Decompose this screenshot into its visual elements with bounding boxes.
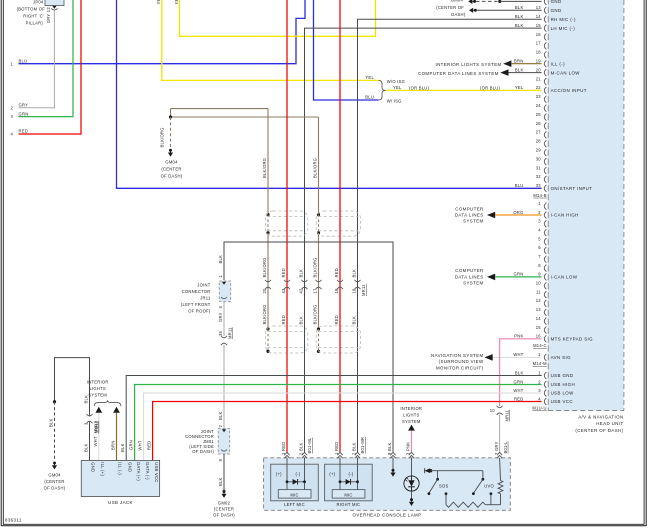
svg-text:BLK: BLK: [298, 269, 303, 278]
svg-text:GND: GND: [551, 0, 562, 4]
wire BLK RH MIC(-) pin 14 to right mic: [358, 19, 542, 452]
svg-text:RED: RED: [334, 315, 339, 325]
svg-text:1: 1: [538, 370, 541, 375]
svg-text:DATA LINES: DATA LINES: [455, 274, 484, 279]
svg-text:BLK: BLK: [218, 477, 223, 486]
svg-text:COMPUTER: COMPUTER: [455, 206, 483, 211]
svg-text:(-): (-): [296, 471, 301, 476]
system label INTERIOR LIGHTS SYSTEM (usb jack): [87, 380, 121, 407]
svg-text:(CENTER: (CENTER: [161, 167, 181, 172]
svg-text:20: 20: [536, 67, 542, 72]
svg-text:MR11: MR11: [504, 409, 509, 421]
svg-text:M14-B: M14-B: [533, 193, 546, 198]
svg-text:31: 31: [536, 165, 542, 170]
svg-text:DATA (-): DATA (-): [145, 462, 150, 480]
resistor horizontal (console): [445, 492, 501, 507]
svg-text:1 RED: 1 RED: [334, 442, 339, 455]
svg-text:M14-C: M14-C: [533, 343, 547, 348]
svg-text:GM04: GM04: [165, 160, 178, 165]
svg-text:MONITOR CIRCUIT): MONITOR CIRCUIT): [436, 366, 484, 371]
svg-text:43: 43: [281, 288, 286, 294]
svg-text:29: 29: [536, 148, 542, 153]
svg-text:GRN: GRN: [128, 440, 133, 450]
connector M14-B pin 12 (GND): [544, 0, 561, 5]
wire YEL (OR BLU) merged to pin 22: [386, 85, 542, 90]
svg-text:W/ ISG: W/ ISG: [387, 98, 402, 103]
wire RED USB VCC: [146, 402, 541, 461]
svg-text:DATA LINES: DATA LINES: [455, 212, 484, 217]
svg-text:MTS KEYPAD SIG: MTS KEYPAD SIG: [551, 337, 594, 342]
inline connector MM12 pin 3 on BLK: [87, 414, 99, 433]
svg-text:M14-M: M14-M: [533, 361, 547, 366]
svg-text:2 BLK: 2 BLK: [352, 442, 357, 455]
svg-text:RED: RED: [281, 315, 286, 325]
left mic internal wiring and diode: [286, 458, 306, 490]
svg-text:GM02: GM02: [218, 501, 231, 506]
wire BLK JM01 pin9 to ground GM02: [218, 454, 224, 491]
svg-text:RIGHT MIC: RIGHT MIC: [337, 502, 361, 507]
svg-text:27: 27: [536, 130, 542, 135]
svg-text:YEL: YEL: [365, 75, 374, 80]
svg-text:18: 18: [352, 288, 357, 294]
svg-text:9 BLK: 9 BLK: [387, 442, 392, 455]
shield box lower right: [316, 326, 360, 353]
wire BLK pin 12 GND (dashed splice): [476, 0, 541, 3]
svg-text:(CENTER: (CENTER: [214, 507, 234, 512]
svg-text:2: 2: [538, 379, 541, 384]
wire YEL inverted-U from top: [174, 0, 376, 36]
wire BLK usb jack GND to GM04 ground: [48, 358, 89, 461]
wire PNK MTS keypad sig from pin 16: [500, 339, 542, 406]
svg-text:BLK/ORG: BLK/ORG: [312, 304, 317, 324]
svg-text:AVN SIG: AVN SIG: [551, 355, 571, 360]
wire GRN I-CAN LOW: [495, 276, 541, 278]
component OVERHEAD CONSOLE LAMP: [264, 458, 511, 518]
svg-text:BRN: BRN: [110, 441, 115, 451]
connector M14-M pin 1 (AVN SIG): [513, 352, 571, 361]
svg-text:(+): (+): [329, 471, 335, 476]
svg-text:RED: RED: [281, 268, 286, 278]
svg-text:I-CAN HIGH: I-CAN HIGH: [551, 213, 579, 218]
wire ORG I-CAN HIGH: [495, 214, 541, 216]
svg-text:1 RED: 1 RED: [281, 442, 286, 455]
svg-text:GRY: GRY: [218, 312, 223, 322]
svg-text:USB VCC: USB VCC: [551, 399, 573, 404]
connector M14-C pin 2 (I-CAN HIGH): [513, 210, 578, 219]
svg-text:SYSTEM: SYSTEM: [402, 419, 421, 424]
svg-text:YEL: YEL: [156, 0, 161, 5]
svg-text:USB HIGH: USB HIGH: [551, 382, 575, 387]
svg-text:33: 33: [536, 183, 542, 188]
joint connector JM01 (left side of dash): [185, 429, 230, 455]
svg-text:16: 16: [536, 32, 542, 37]
svg-text:M-CAN LOW: M-CAN LOW: [551, 70, 581, 75]
wire GRY/BLK down to JM01 pin 2: [218, 345, 224, 429]
svg-text:SYSTEM: SYSTEM: [463, 219, 483, 224]
svg-text:INTERIOR: INTERIOR: [87, 380, 109, 385]
wire GRY pin2 to JP04: [19, 10, 55, 108]
svg-text:JR11: JR11: [200, 295, 211, 300]
svg-text:26: 26: [536, 121, 542, 126]
svg-text:YEL: YEL: [174, 0, 179, 5]
svg-text:9: 9: [538, 272, 541, 277]
svg-text:OF DASH): OF DASH): [192, 449, 214, 454]
svg-text:17: 17: [536, 41, 542, 46]
svg-text:SYSTEM: SYSTEM: [463, 280, 483, 285]
wire RED right mic (+) from top: [339, 0, 341, 453]
wire BLK/ORG shield drain 1 horizontal: [171, 108, 269, 110]
svg-text:BLU: BLU: [365, 95, 374, 100]
svg-text:I-CAN LOW: I-CAN LOW: [551, 275, 578, 280]
svg-text:(CENTER OF: (CENTER OF: [436, 5, 464, 10]
connector M1U-U pin 2 (USB HIGH): [514, 379, 575, 388]
ground GM04 (center of dash) middle: [161, 149, 183, 179]
svg-text:INTERIOR: INTERIOR: [400, 406, 422, 411]
svg-text:19: 19: [334, 288, 339, 294]
wire BLK USB GND: [120, 376, 542, 461]
svg-text:BLK/ORG: BLK/ORG: [160, 127, 165, 147]
svg-text:GRY: GRY: [19, 103, 29, 108]
wire GRN pin3 to top: [19, 0, 74, 117]
A/V & navigation head unit component box: [548, 0, 624, 433]
node left pin 3 GRN: [10, 111, 28, 119]
system arrow NAVIGATION SYSTEM (surround view monitor): [431, 353, 493, 371]
svg-text:15: 15: [536, 23, 542, 28]
svg-text:OF DASH): OF DASH): [213, 513, 235, 518]
wire YEL (w/o ISG) from top: [156, 0, 378, 80]
wire BLU (w/ ISG) from top: [314, 0, 379, 100]
svg-text:GRN: GRN: [514, 272, 524, 277]
svg-text:BLK/ORG: BLK/ORG: [262, 304, 267, 324]
svg-text:GM04: GM04: [451, 0, 464, 3]
connector M1U-U pin 3 (USB LOW): [513, 388, 574, 397]
svg-text:GND: GND: [551, 8, 562, 13]
svg-text:35: 35: [218, 330, 223, 336]
svg-text:10: 10: [490, 408, 496, 413]
shield box lower left: [266, 326, 308, 353]
svg-text:NAVIGATION SYSTEM: NAVIGATION SYSTEM: [431, 353, 484, 358]
svg-text:GRN: GRN: [514, 379, 524, 384]
svg-text:LIGHTS: LIGHTS: [89, 386, 105, 391]
svg-text:(-): (-): [349, 471, 354, 476]
left mic MIC element: [278, 490, 311, 499]
wire BLK pin 13 GND: [477, 9, 542, 11]
left mic pin labels: [281, 437, 312, 455]
svg-text:YEL: YEL: [515, 85, 524, 90]
svg-text:12: 12: [536, 298, 542, 303]
right mic internal wiring and diode: [339, 458, 359, 490]
brace merge YEL/BLU: [365, 75, 405, 103]
node left pin 2 GRY: [10, 103, 28, 111]
wire BLK ground link console pin9 to JR11 pin1: [218, 242, 393, 453]
component RIGHT MIC: [325, 464, 373, 507]
svg-text:MIC: MIC: [344, 493, 352, 498]
svg-text:(+): (+): [276, 471, 282, 476]
svg-text:BLK/ORG: BLK/ORG: [312, 158, 317, 178]
svg-text:ILL (-): ILL (-): [118, 462, 123, 475]
connector JP04 (bottom of right C pillar): [17, 0, 64, 26]
svg-text:20: 20: [262, 288, 267, 294]
wire WHT AVN SIG: [493, 356, 542, 358]
svg-text:COMPUTER DATA LINES SYSTEM: COMPUTER DATA LINES SYSTEM: [418, 71, 499, 76]
svg-text:RED: RED: [19, 129, 29, 134]
svg-text:7 GRY: 7 GRY: [494, 441, 499, 455]
connector M14-C pin 9 (I-CAN LOW): [514, 272, 578, 281]
wire BLK/ORG shield 2 vertical: [312, 117, 320, 353]
svg-text:19: 19: [536, 59, 542, 64]
svg-text:4: 4: [10, 132, 13, 137]
svg-text:BLK: BLK: [351, 269, 356, 278]
svg-text:15: 15: [536, 325, 542, 330]
svg-text:23: 23: [536, 94, 542, 99]
system arrow COMPUTER DATA LINES SYSTEM (I-CAN HIGH): [455, 206, 495, 223]
svg-text:ILL (+): ILL (+): [100, 462, 105, 476]
svg-text:(CENTER: (CENTER: [44, 479, 64, 484]
svg-text:2: 2: [538, 210, 541, 215]
svg-text:SYSTEM: SYSTEM: [88, 393, 107, 398]
svg-text:16: 16: [536, 334, 542, 339]
svg-text:(BOTTOM OF: (BOTTOM OF: [17, 7, 46, 12]
inline connector MR11 (6 wires): [262, 280, 366, 296]
svg-text:A/V & NAVIGATION: A/V & NAVIGATION: [578, 415, 623, 420]
svg-text:BLU: BLU: [19, 58, 28, 63]
svg-text:7: 7: [538, 254, 541, 259]
svg-text:3: 3: [10, 114, 13, 119]
svg-text:(OR BLU): (OR BLU): [409, 85, 430, 90]
svg-text:RIGHT 'C': RIGHT 'C': [23, 14, 44, 19]
wire GRY JR11 pin4 down through MR11 pin35: [218, 302, 224, 337]
switch UVO: [472, 471, 495, 495]
svg-text:1: 1: [538, 201, 541, 206]
connector M14-B pin 33 (ON/START INPUT): [515, 183, 593, 192]
svg-text:CONNECTOR: CONNECTOR: [182, 289, 211, 294]
ground GM04 (center of dash) top: [436, 0, 477, 17]
svg-text:(LEFT FRONT: (LEFT FRONT: [181, 302, 211, 307]
svg-text:BLK: BLK: [515, 23, 524, 28]
node left pin 1 BLU: [10, 58, 27, 66]
svg-text:RED: RED: [334, 268, 339, 278]
svg-text:4: 4: [218, 306, 223, 309]
svg-text:11: 11: [536, 289, 541, 294]
connector M14-B pin 20 (M-CAN LOW): [515, 67, 580, 76]
svg-text:SOS: SOS: [439, 484, 449, 489]
svg-text:(OR BLU): (OR BLU): [480, 85, 501, 90]
svg-text:10: 10: [536, 281, 542, 286]
wire GRY to console pin 7: [494, 415, 508, 455]
svg-text:BLK: BLK: [218, 411, 223, 420]
svg-text:W/O ISG: W/O ISG: [387, 79, 405, 84]
wire labels around MR11: [262, 257, 357, 324]
arrow up ILL(-): [113, 407, 120, 413]
svg-text:18: 18: [536, 50, 542, 55]
wire RED pin4 to top: [19, 0, 82, 134]
svg-text:BLK/ORG: BLK/ORG: [262, 257, 267, 277]
svg-text:13: 13: [536, 307, 542, 312]
node left pin 4 RED: [10, 129, 28, 137]
component USB JACK: [81, 461, 159, 505]
svg-text:BLK: BLK: [120, 443, 125, 452]
svg-text:2 BLK: 2 BLK: [299, 442, 304, 455]
resistor vertical (console, GRY pin 7): [498, 458, 503, 505]
svg-text:3: 3: [538, 388, 541, 393]
svg-text:COMPUTER: COMPUTER: [455, 268, 483, 273]
wire BLK/ORG shield 1 vertical: [262, 109, 270, 353]
svg-text:BLK: BLK: [48, 418, 53, 427]
connector M1U-U pin 1 (USB GND): [515, 370, 573, 379]
console pin entries: [284, 452, 502, 458]
svg-text:30: 30: [536, 156, 542, 161]
svg-text:BLU: BLU: [515, 183, 524, 188]
svg-text:GND: GND: [127, 462, 132, 472]
wire BLU ON/START input from top to pin 33: [117, 0, 542, 188]
svg-text:BLK/ORG: BLK/ORG: [312, 257, 317, 277]
svg-text:USB GND: USB GND: [551, 373, 574, 378]
svg-text:WHT: WHT: [513, 388, 523, 393]
svg-text:LIGHTS: LIGHTS: [403, 412, 419, 417]
svg-text:OF DASH): OF DASH): [161, 174, 183, 179]
svg-text:MR11: MR11: [361, 284, 366, 296]
svg-text:HEAD UNIT: HEAD UNIT: [596, 421, 623, 426]
svg-text:BLK: BLK: [83, 443, 88, 452]
svg-text:LH MIC (-): LH MIC (-): [551, 26, 576, 31]
svg-text:GRN: GRN: [19, 111, 29, 116]
svg-text:B01-L: B01-L: [503, 441, 508, 454]
shield (twisted pair) box upper left: [266, 211, 308, 236]
svg-text:BRN: BRN: [514, 59, 524, 64]
connector M14-B pin 22 (ACC/ON INPUT): [515, 85, 587, 94]
svg-text:BLK: BLK: [298, 316, 303, 325]
connector M14-B pin 19 (ILL (-)): [514, 59, 565, 68]
arrow up ILL(+): [95, 407, 102, 413]
svg-text:22: 22: [536, 85, 542, 90]
svg-text:ORG: ORG: [513, 210, 523, 215]
svg-text:(CENTER OF DASH): (CENTER OF DASH): [575, 428, 623, 433]
svg-text:PNK: PNK: [514, 334, 523, 339]
svg-text:BLK: BLK: [515, 370, 524, 375]
svg-text:1: 1: [538, 352, 541, 357]
wire BLK/ORG drain junction to ground: [160, 109, 173, 149]
svg-text:GRY 12: GRY 12: [46, 7, 51, 24]
component LEFT MIC: [271, 464, 319, 507]
wire BRN ILL(-): [110, 413, 116, 461]
svg-text:BLK: BLK: [515, 5, 524, 10]
system arrow COMPUTER DATA LINES SYSTEM (M-CAN LOW): [418, 69, 508, 76]
wire PNK console lamp pin 3: [406, 431, 412, 455]
svg-text:1: 1: [10, 61, 13, 66]
svg-text:RH MIC (-): RH MIC (-): [551, 17, 576, 22]
svg-text:GM04: GM04: [48, 473, 61, 478]
svg-text:M1U-U: M1U-U: [532, 406, 546, 411]
svg-text:836311: 836311: [5, 518, 22, 523]
connector M14-B pin 15 (LH MIC (-)): [515, 23, 575, 32]
wire BLK/ORG shield drain 2 horizontal: [171, 116, 319, 118]
connector M14-B pin 14 (RH MIC (-)): [515, 14, 576, 23]
system arrow INTERIOR LIGHTS SYSTEM (ILL-): [435, 60, 511, 67]
arrow up console lamp PNK: [408, 425, 415, 431]
svg-text:24: 24: [536, 103, 542, 108]
wire BRN ILL(-): [511, 63, 541, 65]
svg-text:3: 3: [538, 219, 541, 224]
svg-text:4: 4: [538, 228, 541, 233]
inline connector MR11 pin 10 on PNK/GRY: [490, 406, 510, 422]
joint connector JR11 (left front of roof): [181, 281, 231, 313]
right mic MIC element: [332, 490, 365, 499]
svg-text:JOINT: JOINT: [197, 282, 210, 287]
svg-text:GND: GND: [91, 462, 96, 472]
svg-text:OF DASH): OF DASH): [44, 486, 66, 491]
svg-text:MM12: MM12: [93, 421, 98, 434]
svg-text:2: 2: [10, 105, 13, 110]
svg-text:DATA (+): DATA (+): [136, 462, 141, 481]
svg-text:9: 9: [218, 459, 223, 462]
svg-text:PILLAR): PILLAR): [26, 21, 44, 26]
svg-text:6: 6: [538, 245, 541, 250]
inline connector MR11 pin 35: [221, 327, 233, 345]
svg-text:42: 42: [299, 288, 304, 294]
svg-text:BLK: BLK: [515, 67, 524, 72]
console internal ground (pin 9): [390, 458, 395, 477]
switch SOS: [428, 471, 449, 495]
svg-text:MR11: MR11: [228, 327, 233, 339]
svg-text:DASH): DASH): [451, 12, 466, 17]
svg-text:MIC: MIC: [290, 493, 298, 498]
LED lamp (console): [404, 458, 419, 506]
svg-text:4: 4: [538, 396, 541, 401]
wire BLK LH MIC(-) pin 15 to left mic: [305, 28, 542, 452]
svg-text:OVERHEAD CONSOLE LAMP: OVERHEAD CONSOLE LAMP: [353, 512, 422, 517]
svg-text:INTERIOR LIGHTS SYSTEM: INTERIOR LIGHTS SYSTEM: [435, 62, 501, 67]
svg-text:17: 17: [313, 288, 318, 294]
wire RED left mic (+) from top: [286, 0, 288, 453]
connector M14-B empty pins 16-18,21,23-32: [536, 32, 547, 183]
ground GM02 (center of dash): [213, 490, 235, 518]
svg-text:3 PNK: 3 PNK: [406, 442, 411, 455]
svg-text:32: 32: [536, 174, 542, 179]
console switch bus and page arrow: [425, 468, 483, 473]
svg-text:21: 21: [536, 76, 542, 81]
svg-text:RED: RED: [514, 396, 524, 401]
svg-text:ON/START INPUT: ON/START INPUT: [551, 186, 593, 191]
system arrow COMPUTER DATA LINES SYSTEM (I-CAN LOW): [455, 268, 495, 285]
svg-text:WHT: WHT: [513, 352, 523, 357]
right mic pin labels: [334, 437, 365, 455]
svg-text:B01-ML: B01-ML: [307, 437, 312, 453]
svg-text:5: 5: [538, 236, 541, 241]
svg-text:B01-MR: B01-MR: [360, 437, 365, 454]
svg-text:RED: RED: [146, 441, 151, 451]
svg-text:USB JACK: USB JACK: [108, 500, 133, 505]
svg-text:8: 8: [538, 263, 541, 268]
svg-text:BLK/ORG: BLK/ORG: [262, 158, 267, 178]
connector M14-C pin 16 (MTS KEYPAD SIG): [514, 334, 593, 343]
wire BLU pin1 to top (jog): [19, 0, 306, 64]
svg-text:14: 14: [536, 14, 542, 19]
svg-text:BLK: BLK: [351, 316, 356, 325]
svg-text:UVO: UVO: [484, 484, 494, 489]
wire BLK M-CAN LOW: [509, 72, 542, 74]
svg-text:WHT: WHT: [137, 440, 142, 450]
svg-text:USB VCC: USB VCC: [154, 462, 159, 482]
ground GM04 (center of dash) bottom left: [44, 462, 66, 491]
svg-text:USB LOW: USB LOW: [551, 391, 575, 396]
connector M14-B pin 13 (GND): [515, 5, 562, 14]
svg-text:1: 1: [218, 275, 223, 278]
svg-text:(SURROUND VIEW: (SURROUND VIEW: [439, 359, 484, 364]
svg-text:BLK: BLK: [218, 255, 223, 264]
svg-text:YEL: YEL: [393, 85, 402, 90]
svg-text:25: 25: [536, 112, 542, 117]
svg-text:ACC/ON INPUT: ACC/ON INPUT: [551, 88, 587, 93]
